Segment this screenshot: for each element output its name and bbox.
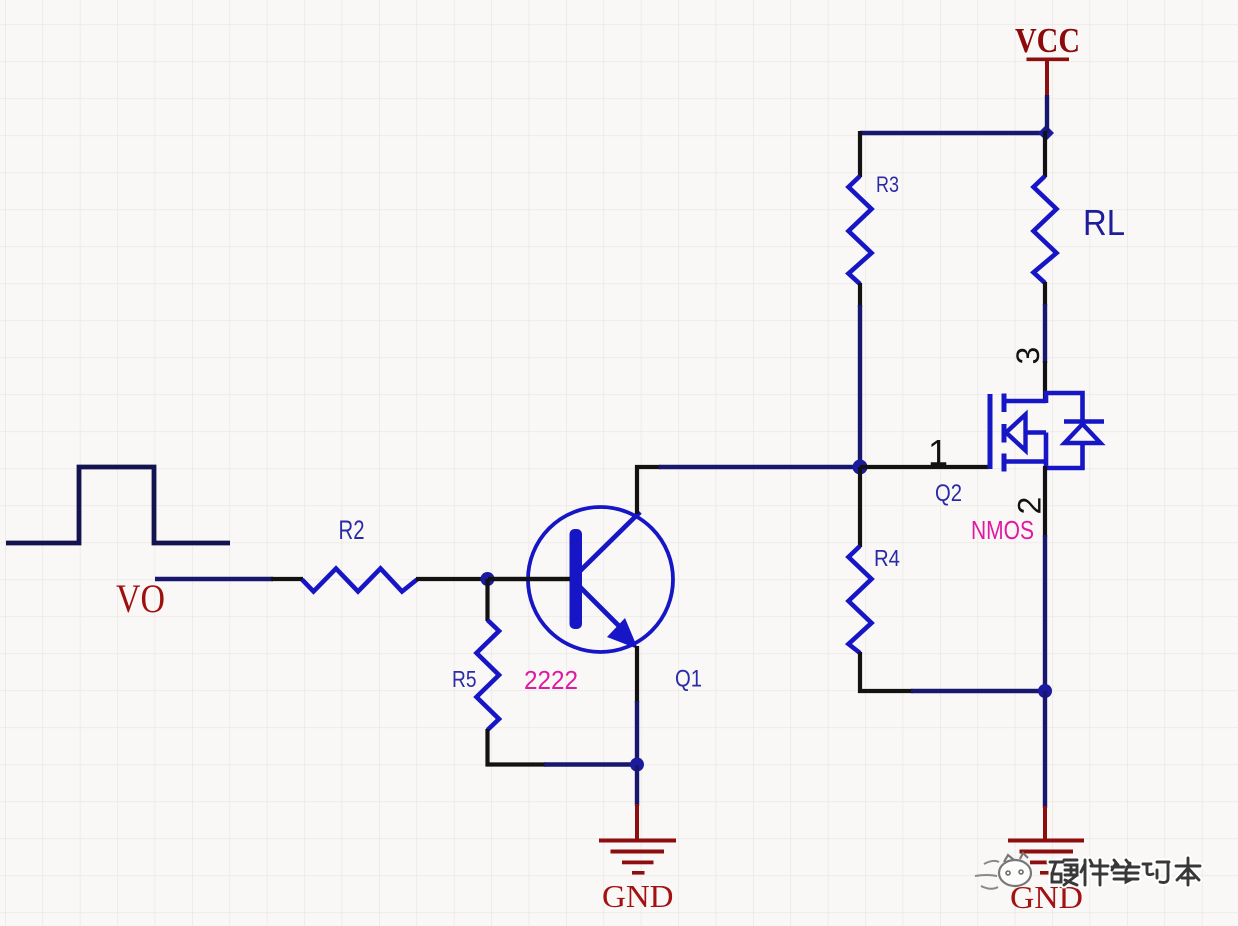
ground symbol right — [1008, 839, 1084, 875]
svg-text:R2: R2 — [339, 515, 365, 545]
svg-text:3: 3 — [1010, 347, 1046, 365]
GND stem left (red) — [635, 804, 639, 840]
node emitter junction — [630, 758, 644, 772]
wire source to GND node — [1043, 535, 1047, 692]
GND stem left (navy) — [635, 765, 639, 806]
R4 pin top — [858, 467, 862, 547]
Q2 drain pin (pin 3) — [1043, 361, 1047, 402]
power symbol VCC bar — [1027, 58, 1070, 62]
svg-text:VO: VO — [116, 576, 165, 621]
svg-text:Q2: Q2 — [935, 480, 962, 507]
resistor R5 — [477, 620, 500, 730]
pulse waveform — [6, 467, 230, 543]
resistor R3 — [849, 176, 872, 284]
transistor Q1 — [528, 507, 673, 652]
Q1 emitter pin — [635, 646, 639, 703]
R4 pin bottom — [860, 652, 913, 691]
resistor R2 — [302, 569, 417, 592]
wire R5 to emitter node (navy part) — [544, 762, 639, 766]
svg-text:2: 2 — [1012, 497, 1048, 515]
svg-text:2222: 2222 — [524, 665, 578, 695]
transistor Q2 NMOS — [990, 393, 1104, 472]
wire emitter to GND node — [635, 701, 639, 767]
svg-text:Q1: Q1 — [675, 666, 702, 693]
R5 pin bottom — [485, 729, 489, 767]
Q2 source pin — [1043, 466, 1047, 537]
watermark text 硬件笔记本 — [1050, 858, 1200, 885]
wire RL to Q2 drain — [1043, 304, 1047, 363]
RL pin bottom — [1043, 282, 1047, 306]
watermark logo scribble — [975, 853, 1031, 889]
R5 pin top — [485, 579, 489, 621]
wire top rail — [860, 131, 1047, 135]
svg-text:R4: R4 — [874, 545, 900, 571]
node source junction — [1038, 684, 1052, 698]
svg-text:GND: GND — [602, 878, 674, 914]
resistor R4 — [849, 546, 872, 653]
R2 pin left — [271, 577, 303, 581]
Q1 collector pin — [637, 467, 661, 514]
R2 pin right / wire to Q1 base — [416, 577, 571, 581]
svg-text:VCC: VCC — [1015, 21, 1080, 60]
GND stem right (red) — [1043, 806, 1047, 840]
svg-text:R3: R3 — [876, 172, 899, 197]
node VCC junction — [1038, 125, 1054, 141]
R3 pin top — [858, 131, 862, 177]
wire gate node to Q2 gate — [860, 465, 989, 469]
svg-text:NMOS: NMOS — [971, 515, 1034, 545]
svg-text:RL: RL — [1083, 202, 1125, 243]
RL pin top — [1043, 131, 1047, 177]
node gate junction — [853, 460, 868, 475]
svg-text:1: 1 — [928, 432, 948, 473]
wire R5 to emitter node (black part) — [486, 762, 547, 766]
ground symbol left — [599, 839, 676, 875]
wire R4 to source node — [911, 689, 1046, 693]
VCC stem (navy) — [1045, 95, 1049, 133]
VCC stem (red) — [1045, 60, 1049, 97]
node base junction — [481, 572, 495, 586]
resistor RL — [1034, 176, 1057, 283]
svg-text:R5: R5 — [452, 666, 477, 692]
GND stem right (navy) — [1043, 691, 1047, 808]
wire R3 to gate node — [858, 305, 862, 468]
R3 pin bottom — [858, 283, 862, 307]
wire VO to R2 — [155, 577, 273, 581]
Q1 base wire — [488, 577, 570, 581]
wire collector to gate node — [659, 465, 861, 469]
